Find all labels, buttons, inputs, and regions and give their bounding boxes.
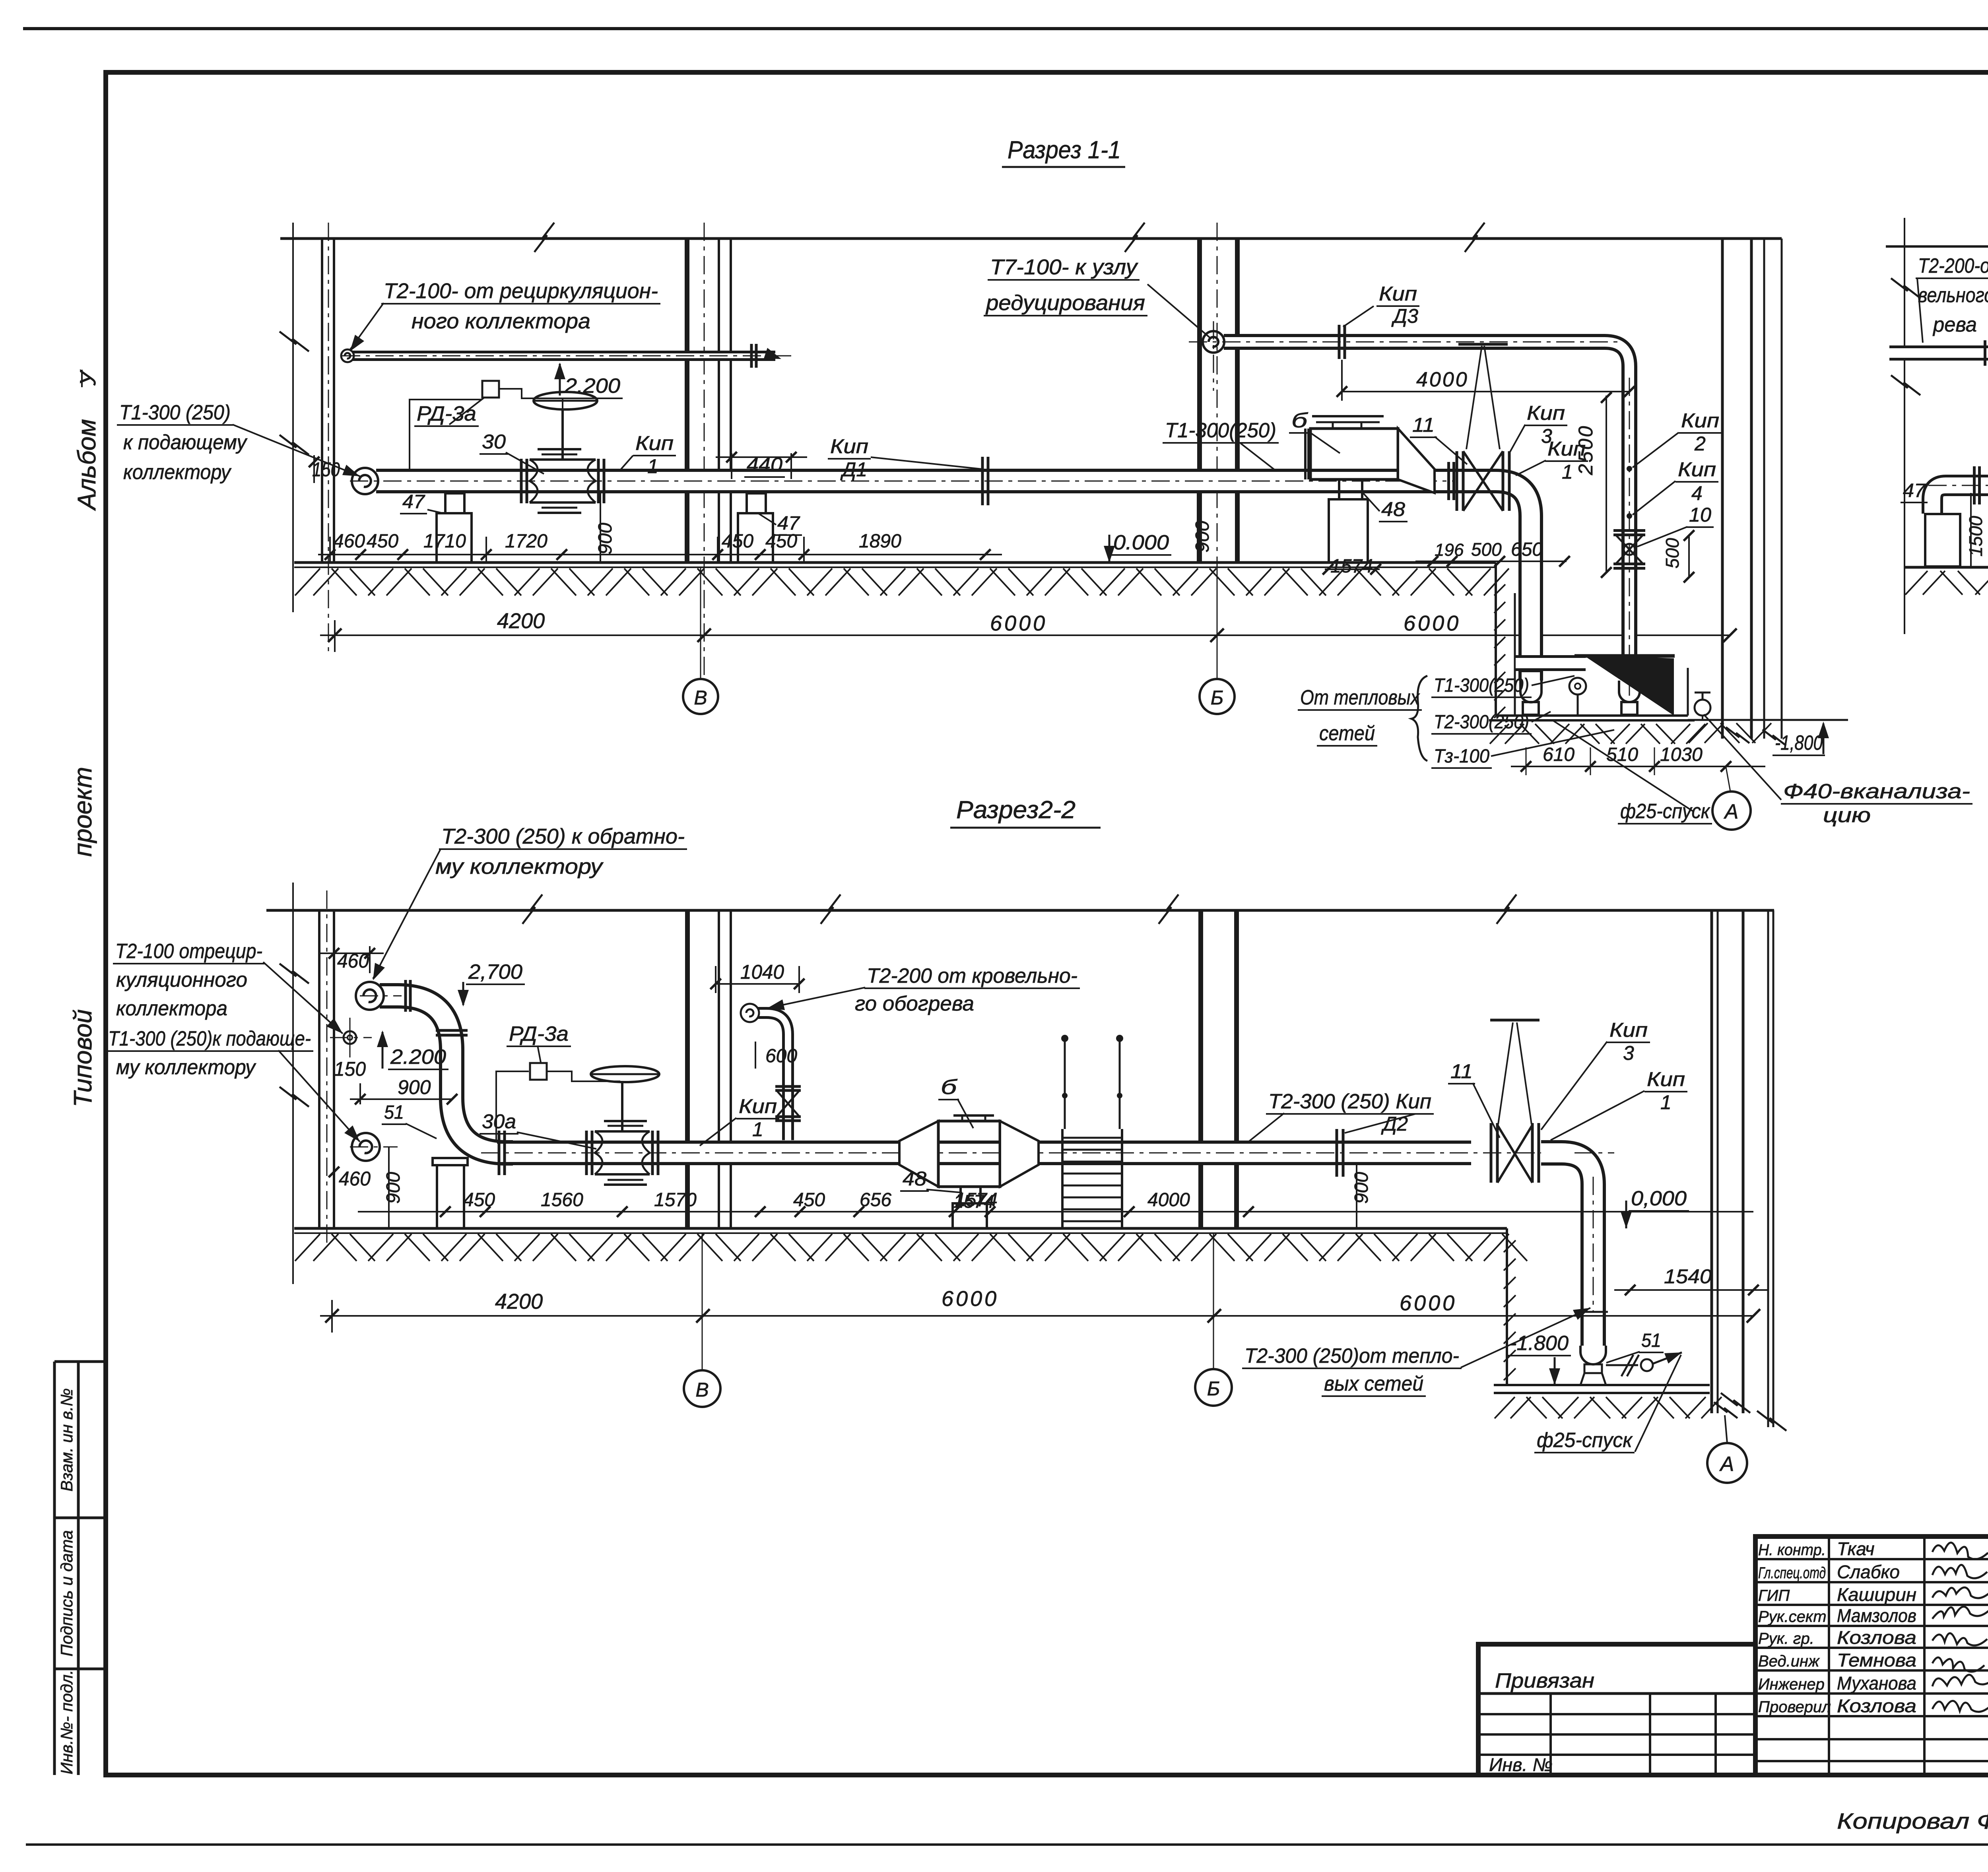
svg-text:4: 4 (1691, 482, 1703, 504)
svg-text:Т2-300(250): Т2-300(250) (1434, 712, 1529, 733)
svg-text:Муханова: Муханова (1837, 1673, 1916, 1694)
svg-text:сетей: сетей (1319, 722, 1375, 745)
svg-text:ф25-спуск: ф25-спуск (1537, 1429, 1633, 1452)
svg-text:1574: 1574 (955, 1189, 998, 1210)
svg-text:А: А (1724, 800, 1739, 823)
svg-text:Кип: Кип (1547, 438, 1586, 460)
svg-text:Кип: Кип (830, 435, 868, 458)
svg-text:В: В (695, 1379, 709, 1401)
svg-text:Кип: Кип (739, 1095, 777, 1117)
svg-text:Т1-300 (250): Т1-300 (250) (119, 401, 231, 424)
svg-text:коллектора: коллектора (116, 997, 227, 1020)
svg-text:Взам. ин в.№: Взам. ин в.№ (57, 1388, 76, 1492)
svg-text:Б: Б (1207, 1377, 1220, 1400)
svg-text:4000: 4000 (1147, 1189, 1190, 1210)
svg-text:900: 900 (1192, 521, 1213, 553)
svg-text:вельного обог-: вельного обог- (1918, 284, 1988, 307)
svg-text:-1,800: -1,800 (1775, 731, 1823, 755)
svg-text:проект: проект (68, 767, 97, 857)
svg-text:Кип: Кип (635, 432, 674, 454)
svg-text:450: 450 (367, 531, 398, 552)
svg-text:3: 3 (1623, 1042, 1634, 1064)
svg-text:Разрез2-2: Разрез2-2 (956, 796, 1076, 824)
svg-text:900: 900 (398, 1076, 431, 1098)
svg-text:2.200: 2.200 (390, 1046, 446, 1069)
svg-text:ГИП: ГИП (1758, 1587, 1790, 1604)
svg-text:Т7-100- к узлу: Т7-100- к узлу (990, 255, 1138, 279)
svg-text:600: 600 (765, 1046, 797, 1067)
svg-text:Мамзолов: Мамзолов (1837, 1605, 1916, 1626)
svg-text:1: 1 (752, 1118, 763, 1141)
svg-text:1560: 1560 (541, 1189, 583, 1210)
svg-text:1: 1 (1562, 461, 1573, 483)
svg-text:656: 656 (860, 1189, 891, 1210)
svg-text:Ткач: Ткач (1837, 1538, 1875, 1559)
svg-text:Разрез 1-1: Разрез 1-1 (1008, 136, 1121, 164)
svg-text:11: 11 (1450, 1060, 1473, 1082)
svg-text:510: 510 (1606, 744, 1638, 765)
svg-text:Темнова: Темнова (1837, 1650, 1916, 1670)
svg-text:0.000: 0.000 (1113, 531, 1169, 554)
svg-text:51: 51 (384, 1102, 404, 1123)
svg-text:цию: цию (1823, 804, 1871, 827)
svg-text:ф25-спуск: ф25-спуск (1620, 800, 1710, 823)
svg-text:Б: Б (1211, 687, 1224, 709)
svg-text:Ф40-вканализа-: Ф40-вканализа- (1783, 780, 1970, 803)
svg-text:1540: 1540 (1664, 1265, 1712, 1288)
svg-text:6000: 6000 (1400, 1291, 1457, 1315)
svg-text:А: А (1719, 1453, 1734, 1476)
svg-text:10: 10 (1689, 504, 1711, 526)
svg-text:От тепловых: От тепловых (1300, 686, 1420, 709)
svg-text:30а: 30а (482, 1110, 516, 1133)
svg-text:11: 11 (1412, 414, 1435, 436)
svg-text:30: 30 (482, 431, 506, 453)
svg-text:Инв. №: Инв. № (1489, 1754, 1553, 1775)
svg-text:РД-3а: РД-3а (509, 1022, 569, 1046)
svg-text:47: 47 (402, 491, 425, 512)
svg-text:Козлова: Козлова (1837, 1627, 1916, 1648)
svg-text:51: 51 (1641, 1330, 1661, 1351)
svg-text:1030: 1030 (1660, 744, 1703, 765)
svg-text:Кип: Кип (1647, 1068, 1685, 1090)
svg-text:Копировал Фомушкина: Копировал Фомушкина (1837, 1808, 1988, 1833)
svg-text:196: 196 (1435, 540, 1464, 560)
svg-text:-1.800: -1.800 (1510, 1332, 1569, 1355)
svg-text:Т2-100- от рециркуляцион-: Т2-100- от рециркуляцион- (384, 279, 658, 303)
svg-text:куляционного: куляционного (116, 968, 247, 991)
svg-text:Д1: Д1 (840, 458, 867, 481)
svg-text:Т1-300(250): Т1-300(250) (1165, 419, 1276, 442)
svg-text:Рук. гр.: Рук. гр. (1758, 1630, 1814, 1647)
svg-text:Вед.инж: Вед.инж (1758, 1653, 1820, 1670)
svg-text:2.200: 2.200 (564, 374, 620, 398)
svg-text:1: 1 (647, 455, 658, 477)
svg-text:В: В (694, 687, 707, 709)
svg-text:Кип: Кип (1609, 1019, 1648, 1041)
svg-text:610: 610 (1543, 744, 1574, 765)
svg-text:1574: 1574 (1330, 556, 1373, 577)
svg-text:Типовой: Типовой (68, 1009, 97, 1108)
svg-text:Д2: Д2 (1381, 1113, 1408, 1135)
svg-text:900: 900 (383, 1172, 404, 1204)
svg-text:Каширин: Каширин (1837, 1584, 1916, 1605)
svg-text:1570: 1570 (654, 1189, 697, 1210)
svg-text:Привязан: Привязан (1495, 1669, 1594, 1692)
svg-text:2: 2 (1694, 433, 1706, 455)
svg-text:Козлова: Козлова (1837, 1695, 1916, 1716)
svg-text:У: У (75, 369, 100, 386)
svg-text:150: 150 (334, 1058, 366, 1080)
svg-text:650: 650 (1511, 539, 1543, 560)
svg-text:450: 450 (463, 1189, 495, 1210)
svg-text:Т2-200 от кровельно-: Т2-200 от кровельно- (867, 964, 1077, 987)
svg-text:4200: 4200 (497, 609, 545, 633)
svg-text:1710: 1710 (423, 531, 466, 552)
svg-text:му коллектору: му коллектору (116, 1056, 256, 1079)
svg-text:1040: 1040 (740, 961, 784, 983)
svg-text:го обогрева: го обогрева (855, 992, 974, 1015)
svg-text:Д3: Д3 (1391, 305, 1418, 327)
svg-text:вых сетей: вых сетей (1324, 1372, 1423, 1395)
svg-text:Т1-300(250): Т1-300(250) (1434, 675, 1529, 696)
svg-text:Т2-100 отрецир-: Т2-100 отрецир- (115, 940, 262, 963)
svg-text:48: 48 (1381, 498, 1405, 520)
svg-text:Т2-300 (250)от тепло-: Т2-300 (250)от тепло- (1244, 1344, 1459, 1368)
svg-text:Т2-300 (250) к обратно-: Т2-300 (250) к обратно- (441, 824, 685, 848)
svg-text:6000: 6000 (942, 1287, 999, 1311)
svg-text:рева: рева (1932, 313, 1977, 336)
svg-text:500: 500 (1471, 539, 1502, 560)
svg-text:4200: 4200 (495, 1290, 543, 1313)
svg-text:Т1-300 (250)к подающе-: Т1-300 (250)к подающе- (108, 1027, 311, 1050)
svg-text:Инв.№- подл.: Инв.№- подл. (57, 1670, 76, 1775)
svg-text:460: 460 (339, 1168, 371, 1190)
svg-text:Подпись и дата: Подпись и дата (57, 1530, 76, 1657)
svg-text:450: 450 (793, 1189, 825, 1210)
svg-text:Кип: Кип (1527, 402, 1565, 424)
svg-text:900: 900 (595, 523, 616, 555)
svg-text:1: 1 (1660, 1091, 1672, 1114)
svg-text:Т2-300 (250) Кип: Т2-300 (250) Кип (1268, 1090, 1431, 1113)
svg-text:460: 460 (333, 531, 365, 552)
svg-text:Альбом: Альбом (72, 419, 101, 511)
svg-text:Кип: Кип (1379, 283, 1417, 305)
svg-text:4000: 4000 (1416, 368, 1469, 391)
svg-text:1890: 1890 (859, 531, 901, 552)
svg-text:му коллектору: му коллектору (435, 855, 604, 879)
svg-text:Кип: Кип (1678, 458, 1716, 481)
svg-text:0,000: 0,000 (1631, 1187, 1687, 1210)
svg-text:Рук.сект: Рук.сект (1758, 1608, 1827, 1626)
svg-text:450: 450 (722, 531, 753, 552)
svg-text:Гл.спец.отд: Гл.спец.отд (1758, 1564, 1826, 1582)
svg-text:1720: 1720 (505, 531, 547, 552)
svg-text:Н. контр.: Н. контр. (1758, 1541, 1826, 1559)
svg-text:2,700: 2,700 (468, 960, 522, 984)
svg-text:450: 450 (765, 531, 797, 552)
svg-text:47: 47 (1903, 480, 1926, 501)
svg-text:Слабко: Слабко (1837, 1562, 1900, 1582)
svg-text:ного коллектора: ного коллектора (412, 309, 590, 333)
svg-text:редуцирования: редуцирования (985, 291, 1145, 315)
svg-text:1500: 1500 (1965, 516, 1986, 557)
svg-text:Т2-200-от кро-: Т2-200-от кро- (1918, 254, 1988, 277)
svg-text:900: 900 (1351, 1172, 1372, 1204)
svg-text:Кип: Кип (1681, 409, 1719, 432)
svg-text:б: б (941, 1076, 957, 1099)
svg-text:к подающему: к подающему (123, 431, 248, 454)
svg-text:Инженер: Инженер (1758, 1676, 1825, 1693)
svg-text:РД-3а: РД-3а (417, 402, 476, 425)
svg-text:500: 500 (1662, 538, 1683, 568)
svg-text:6000: 6000 (990, 611, 1047, 635)
svg-text:б: б (1291, 409, 1308, 432)
svg-text:Тз-100: Тз-100 (1434, 746, 1489, 767)
svg-text:Проверил: Проверил (1758, 1698, 1831, 1716)
svg-text:48: 48 (903, 1168, 926, 1190)
svg-text:6000: 6000 (1404, 611, 1461, 635)
svg-text:коллектору: коллектору (123, 461, 232, 484)
